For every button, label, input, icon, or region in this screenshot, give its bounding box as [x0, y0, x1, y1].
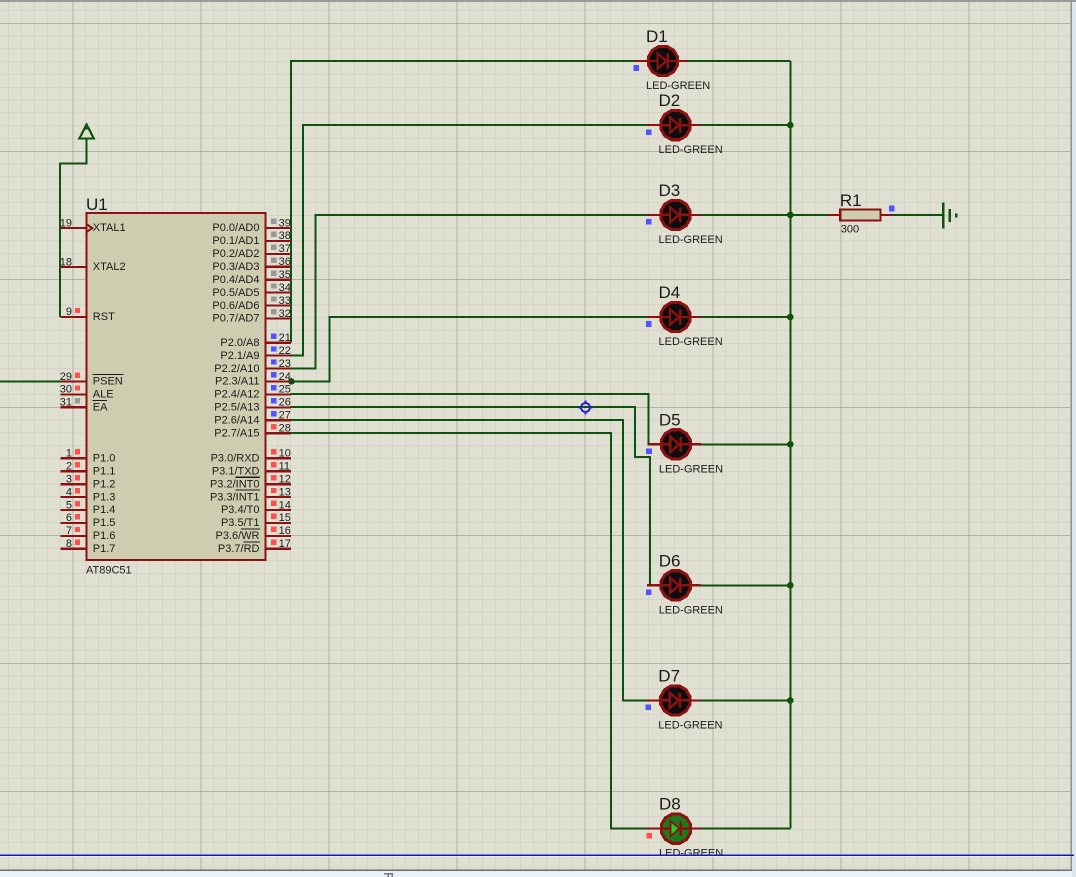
wire cathode bus vertical	[789, 61, 791, 829]
pin 37 P0.2/AD2 (right)	[212, 243, 290, 260]
wire VCC to RST	[60, 139, 87, 317]
svg-text:D1: D1	[646, 27, 668, 46]
svg-text:18: 18	[60, 256, 72, 268]
pin 32 P0.7/AD7 (right)	[212, 308, 290, 325]
pin 10 P3.0/RXD (right)	[211, 448, 291, 465]
pin 29 PSEN (left)	[60, 371, 124, 388]
pin 25 P2.4/A12 (right)	[214, 384, 291, 401]
svg-text:LED-GREEN: LED-GREEN	[659, 463, 723, 475]
svg-text:P2.3/A11: P2.3/A11	[215, 376, 259, 388]
LED D7 (off)	[647, 686, 701, 715]
junction bus-D2	[787, 122, 794, 129]
pin 22 P2.1/A9 (right)	[220, 345, 291, 362]
state square D5	[646, 449, 652, 455]
svg-text:P3.0/RXD: P3.0/RXD	[211, 453, 260, 465]
pin 28 P2.7/A15 (right)	[214, 423, 291, 440]
svg-text:19: 19	[60, 217, 72, 229]
wire P2.4 pin25 to D5	[291, 394, 649, 444]
label D5	[659, 410, 681, 429]
pin 16 P3.6/WR (right)	[215, 525, 290, 542]
pin 14 P3.4/T0 (right)	[221, 499, 291, 516]
pin 34 P0.5/AD5 (right)	[212, 282, 290, 299]
pin 36 P0.3/AD3 (right)	[212, 256, 290, 273]
svg-text:P1.2: P1.2	[93, 478, 116, 490]
svg-text:300: 300	[841, 224, 859, 236]
svg-text:16: 16	[279, 525, 291, 537]
pin 9 RST (left)	[60, 306, 115, 323]
wire P2.7 pin28 to D8	[291, 433, 648, 828]
label D1 LED-GREEN	[646, 80, 710, 92]
svg-text:LED-GREEN: LED-GREEN	[658, 719, 722, 731]
LED D2 (off)	[647, 111, 701, 140]
label D7 LED-GREEN	[658, 719, 722, 731]
svg-text:27: 27	[279, 410, 291, 422]
svg-text:36: 36	[279, 256, 291, 268]
svg-text:R1: R1	[840, 191, 862, 210]
svg-text:P3.7/RD: P3.7/RD	[218, 543, 260, 555]
svg-text:39: 39	[279, 217, 291, 229]
svg-text:P2.7/A15: P2.7/A15	[214, 427, 259, 439]
svg-text:D5: D5	[659, 410, 681, 429]
junction bus-D5	[787, 441, 794, 448]
pin 11 P3.1/TXD (right)	[212, 461, 291, 478]
pin 12 P3.2/INT0 (right)	[210, 474, 291, 491]
wire D3 cathode to bus	[701, 214, 791, 216]
svg-text:P0.2/AD2: P0.2/AD2	[212, 248, 259, 260]
microcontroller U1 AT89C51 body	[87, 213, 266, 560]
svg-text:P2.6/A14: P2.6/A14	[214, 415, 259, 427]
svg-text:6: 6	[66, 512, 72, 524]
svg-text:38: 38	[279, 230, 291, 242]
pin 33 P0.6/AD6 (right)	[212, 295, 290, 312]
wire P2.5 pin26 to D6	[291, 407, 650, 585]
wire P2.0 pin21 to D1	[291, 61, 635, 343]
svg-text:EA: EA	[93, 402, 108, 414]
wire P2.1 pin22 to D2	[291, 125, 647, 356]
svg-text:D8: D8	[659, 795, 681, 814]
svg-text:LED-GREEN: LED-GREEN	[659, 144, 723, 156]
svg-text:P0.7/AD7: P0.7/AD7	[212, 313, 259, 325]
svg-text:PSEN: PSEN	[93, 376, 123, 388]
svg-text:25: 25	[279, 384, 291, 396]
svg-text:P1.7: P1.7	[93, 543, 116, 555]
state square D2	[646, 129, 652, 135]
svg-text:LED-GREEN: LED-GREEN	[659, 604, 723, 616]
svg-text:P3.2/INT0: P3.2/INT0	[210, 478, 260, 490]
wire D1 cathode to bus	[688, 60, 790, 62]
svg-text:34: 34	[279, 282, 291, 294]
svg-text:D4: D4	[659, 283, 681, 302]
state square D4	[646, 321, 652, 327]
wire R1 to ground	[892, 214, 943, 216]
pin 39 P0.0/AD0 (right)	[212, 217, 290, 234]
svg-text:LED-GREEN: LED-GREEN	[659, 234, 723, 246]
svg-text:P0.1/AD1: P0.1/AD1	[212, 235, 259, 247]
svg-text:P1.5: P1.5	[93, 517, 116, 529]
svg-text:P3.1/TXD: P3.1/TXD	[212, 465, 260, 477]
svg-text:RST: RST	[93, 311, 115, 323]
pin 3 P1.2 (left)	[60, 474, 115, 491]
svg-text:37: 37	[279, 243, 291, 255]
pin 23 P2.2/A10 (right)	[214, 358, 291, 375]
label D3	[659, 181, 681, 200]
svg-text:P0.5/AD5: P0.5/AD5	[212, 287, 259, 299]
svg-text:15: 15	[279, 512, 291, 524]
pin 24 P2.3/A11 (right)	[215, 371, 291, 388]
svg-text:P1.3: P1.3	[93, 491, 116, 503]
pin 5 P1.4 (left)	[60, 499, 115, 516]
pin 6 P1.5 (left)	[60, 512, 115, 529]
svg-text:10: 10	[279, 448, 291, 460]
label D7	[658, 666, 680, 685]
LED D4 (off)	[647, 302, 701, 331]
resistor R1	[828, 209, 893, 220]
svg-text:P0.4/AD4: P0.4/AD4	[212, 274, 259, 286]
svg-text:35: 35	[279, 269, 291, 281]
svg-text:P2.0/A8: P2.0/A8	[220, 337, 259, 349]
pin 30 ALE (left)	[60, 384, 114, 401]
svg-text:P0.6/AD6: P0.6/AD6	[212, 300, 259, 312]
label R1	[840, 191, 862, 210]
pin 35 P0.4/AD4 (right)	[212, 269, 290, 286]
svg-text:P2.5/A13: P2.5/A13	[214, 402, 259, 414]
svg-text:22: 22	[279, 345, 291, 357]
svg-text:7: 7	[66, 525, 72, 537]
svg-text:12: 12	[279, 474, 291, 486]
label D5 LED-GREEN	[659, 463, 723, 475]
svg-text:31: 31	[60, 397, 72, 409]
svg-text:21: 21	[279, 332, 291, 344]
state square D3	[646, 219, 652, 225]
LED D1 (off)	[635, 46, 689, 75]
svg-text:P3.6/WR: P3.6/WR	[215, 530, 259, 542]
pin 31 EA (left)	[60, 397, 108, 414]
svg-text:D7: D7	[658, 666, 680, 685]
wire D5 cathode to bus	[701, 443, 790, 445]
value 300	[841, 224, 859, 236]
svg-text:26: 26	[279, 397, 291, 409]
junction bus-D6	[787, 582, 794, 589]
label D1	[646, 27, 668, 46]
svg-text:P0.3/AD3: P0.3/AD3	[212, 261, 259, 273]
LED D6 (off)	[647, 571, 701, 600]
label D6 LED-GREEN	[659, 604, 723, 616]
wire bus to R1	[790, 214, 828, 216]
junction bus-D4	[787, 314, 794, 321]
svg-text:24: 24	[279, 371, 291, 383]
svg-text:D2: D2	[659, 91, 681, 110]
pin 7 P1.6 (left)	[60, 525, 115, 542]
state square D6	[646, 590, 652, 596]
junction dot pin24	[288, 378, 295, 385]
pin 4 P1.3 (left)	[60, 486, 115, 503]
svg-text:P1.1: P1.1	[93, 465, 116, 477]
svg-text:28: 28	[279, 423, 291, 435]
svg-text:P2.4/A12: P2.4/A12	[214, 389, 259, 401]
svg-text:P1.0: P1.0	[93, 453, 116, 465]
svg-text:9: 9	[66, 306, 72, 318]
pin 19 XTAL1 (left)	[60, 217, 126, 234]
junction bus-D3	[787, 212, 794, 219]
junction bus-D7	[787, 697, 794, 704]
svg-text:P3.3/INT1: P3.3/INT1	[210, 491, 260, 503]
svg-text:17: 17	[279, 538, 291, 550]
label AT89C51	[86, 564, 132, 576]
svg-text:3: 3	[66, 474, 72, 486]
svg-text:D3: D3	[659, 181, 681, 200]
label D4 LED-GREEN	[659, 336, 723, 348]
svg-text:U1: U1	[86, 195, 108, 214]
wire P2.2 pin23 to D3	[291, 215, 647, 369]
pin 21 P2.0/A8 (right)	[220, 332, 291, 349]
label D2 LED-GREEN	[659, 144, 723, 156]
pin 18 XTAL2 (left)	[60, 256, 126, 273]
svg-text:32: 32	[279, 308, 291, 320]
wire D8 cathode to bus	[701, 828, 790, 830]
pin 13 P3.3/INT1 (right)	[210, 486, 291, 503]
pin 26 P2.5/A13 (right)	[214, 397, 291, 414]
svg-text:P1.6: P1.6	[93, 530, 116, 542]
LED D5 (off)	[647, 430, 701, 459]
svg-text:11: 11	[279, 461, 290, 473]
svg-text:P1.4: P1.4	[93, 504, 116, 516]
svg-text:1: 1	[66, 448, 72, 460]
pin 2 P1.1 (left)	[60, 461, 115, 478]
svg-text:AT89C51: AT89C51	[86, 564, 132, 576]
pin 27 P2.6/A14 (right)	[214, 410, 291, 427]
label D2	[659, 91, 681, 110]
pin 38 P0.1/AD1 (right)	[212, 230, 290, 247]
svg-text:P0.0/AD0: P0.0/AD0	[212, 222, 259, 234]
wire D6 cathode to bus	[701, 584, 791, 586]
power symbol VCC	[79, 125, 94, 139]
wire P2.3 pin24 to D4	[291, 317, 647, 382]
svg-text:2: 2	[66, 461, 72, 473]
label D3 LED-GREEN	[659, 234, 723, 246]
svg-text:23: 23	[279, 358, 291, 370]
pin 8 P1.7 (left)	[60, 538, 115, 555]
svg-text:29: 29	[60, 371, 72, 383]
label U1	[86, 195, 108, 214]
label D8 LED-GREEN	[659, 848, 723, 860]
wire D4 cathode to bus	[701, 316, 791, 318]
svg-text:30: 30	[60, 384, 72, 396]
wire PSEN net (left)	[0, 381, 61, 383]
ground	[943, 203, 956, 229]
svg-text:P3.4/T0: P3.4/T0	[221, 504, 260, 516]
svg-text:D6: D6	[659, 551, 681, 570]
wire D7 cathode to bus	[700, 699, 790, 701]
state square D8	[646, 833, 652, 839]
svg-text:P2.1/A9: P2.1/A9	[220, 350, 259, 362]
cursor crosshair	[579, 401, 593, 415]
state square R1 right	[889, 206, 895, 212]
wire D2 cathode to bus	[701, 124, 791, 126]
svg-text:33: 33	[279, 295, 291, 307]
svg-text:XTAL2: XTAL2	[93, 261, 126, 273]
pin 15 P3.5/T1 (right)	[221, 512, 291, 529]
state square D7	[646, 705, 652, 711]
pin 17 P3.7/RD (right)	[218, 538, 291, 555]
LED D3 (off)	[647, 200, 701, 229]
svg-text:LED-GREEN: LED-GREEN	[659, 848, 723, 860]
svg-text:P3.5/T1: P3.5/T1	[221, 517, 260, 529]
svg-text:13: 13	[279, 486, 291, 498]
svg-text:8: 8	[66, 538, 72, 550]
svg-text:4: 4	[66, 486, 72, 498]
label D6	[659, 551, 681, 570]
label D4	[659, 283, 681, 302]
svg-text:XTAL1: XTAL1	[93, 222, 126, 234]
LED D8 (on)	[648, 814, 702, 843]
svg-text:ALE: ALE	[93, 389, 114, 401]
svg-text:P2.2/A10: P2.2/A10	[214, 363, 259, 375]
wire P2.6 pin27 to D7	[291, 420, 647, 700]
label D8	[659, 795, 681, 814]
svg-text:14: 14	[279, 499, 291, 511]
svg-text:LED-GREEN: LED-GREEN	[659, 336, 723, 348]
pin 1 P1.0 (left)	[60, 448, 115, 465]
svg-text:5: 5	[66, 499, 72, 511]
state square D1	[633, 65, 639, 71]
